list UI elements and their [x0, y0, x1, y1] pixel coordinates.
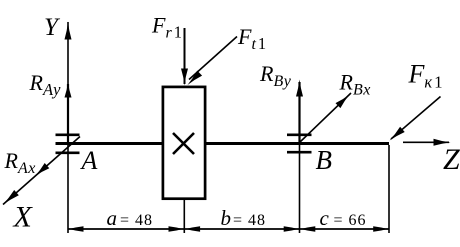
Z axis arrow	[403, 141, 449, 143]
dimension a right arrowhead	[169, 226, 184, 232]
reaction R_Ay arrow	[67, 84, 69, 144]
Y axis line through A (also dimension extension line)	[67, 22, 69, 233]
bearing A ticks	[56, 135, 80, 153]
X axis arrowhead	[3, 190, 19, 205]
svg-text:= 48: = 48	[233, 212, 266, 229]
dimension b left arrowhead	[186, 226, 201, 232]
B vertical extension line	[299, 144, 301, 234]
svg-text:= 66: = 66	[334, 212, 367, 229]
Y axis arrowhead	[65, 22, 72, 40]
dimension line	[68, 228, 390, 230]
reaction R_By arrow	[298, 82, 300, 144]
svg-text:a: a	[107, 206, 118, 230]
dimension a left arrowhead	[69, 226, 84, 232]
svg-text:Z: Z	[443, 143, 460, 176]
gear (rectangle on shaft)	[163, 87, 205, 199]
svg-text:b: b	[221, 206, 232, 230]
gear cross mark	[173, 133, 194, 154]
svg-text:A: A	[80, 146, 98, 175]
force F_k1 arrow	[391, 97, 441, 140]
shaft (main horizontal axis line)	[56, 142, 390, 145]
shaft end extension line	[388, 145, 390, 233]
X axis line from A	[3, 137, 80, 205]
dimension b right arrowhead	[284, 226, 299, 232]
force F_r1 arrow	[184, 28, 186, 84]
bearing B ticks	[287, 135, 312, 152]
gear centre extension line	[183, 200, 185, 233]
dimension c left arrowhead	[301, 226, 316, 232]
svg-text:= 48: = 48	[120, 212, 153, 229]
force F_t1 arrow	[189, 37, 237, 80]
reaction R_Ax arrowhead	[35, 163, 49, 176]
svg-text:B: B	[316, 145, 333, 175]
svg-text:c: c	[320, 206, 330, 230]
dimension c right arrowhead	[373, 226, 388, 232]
svg-text:X: X	[13, 201, 34, 234]
reaction R_Bx arrow	[300, 93, 352, 143]
